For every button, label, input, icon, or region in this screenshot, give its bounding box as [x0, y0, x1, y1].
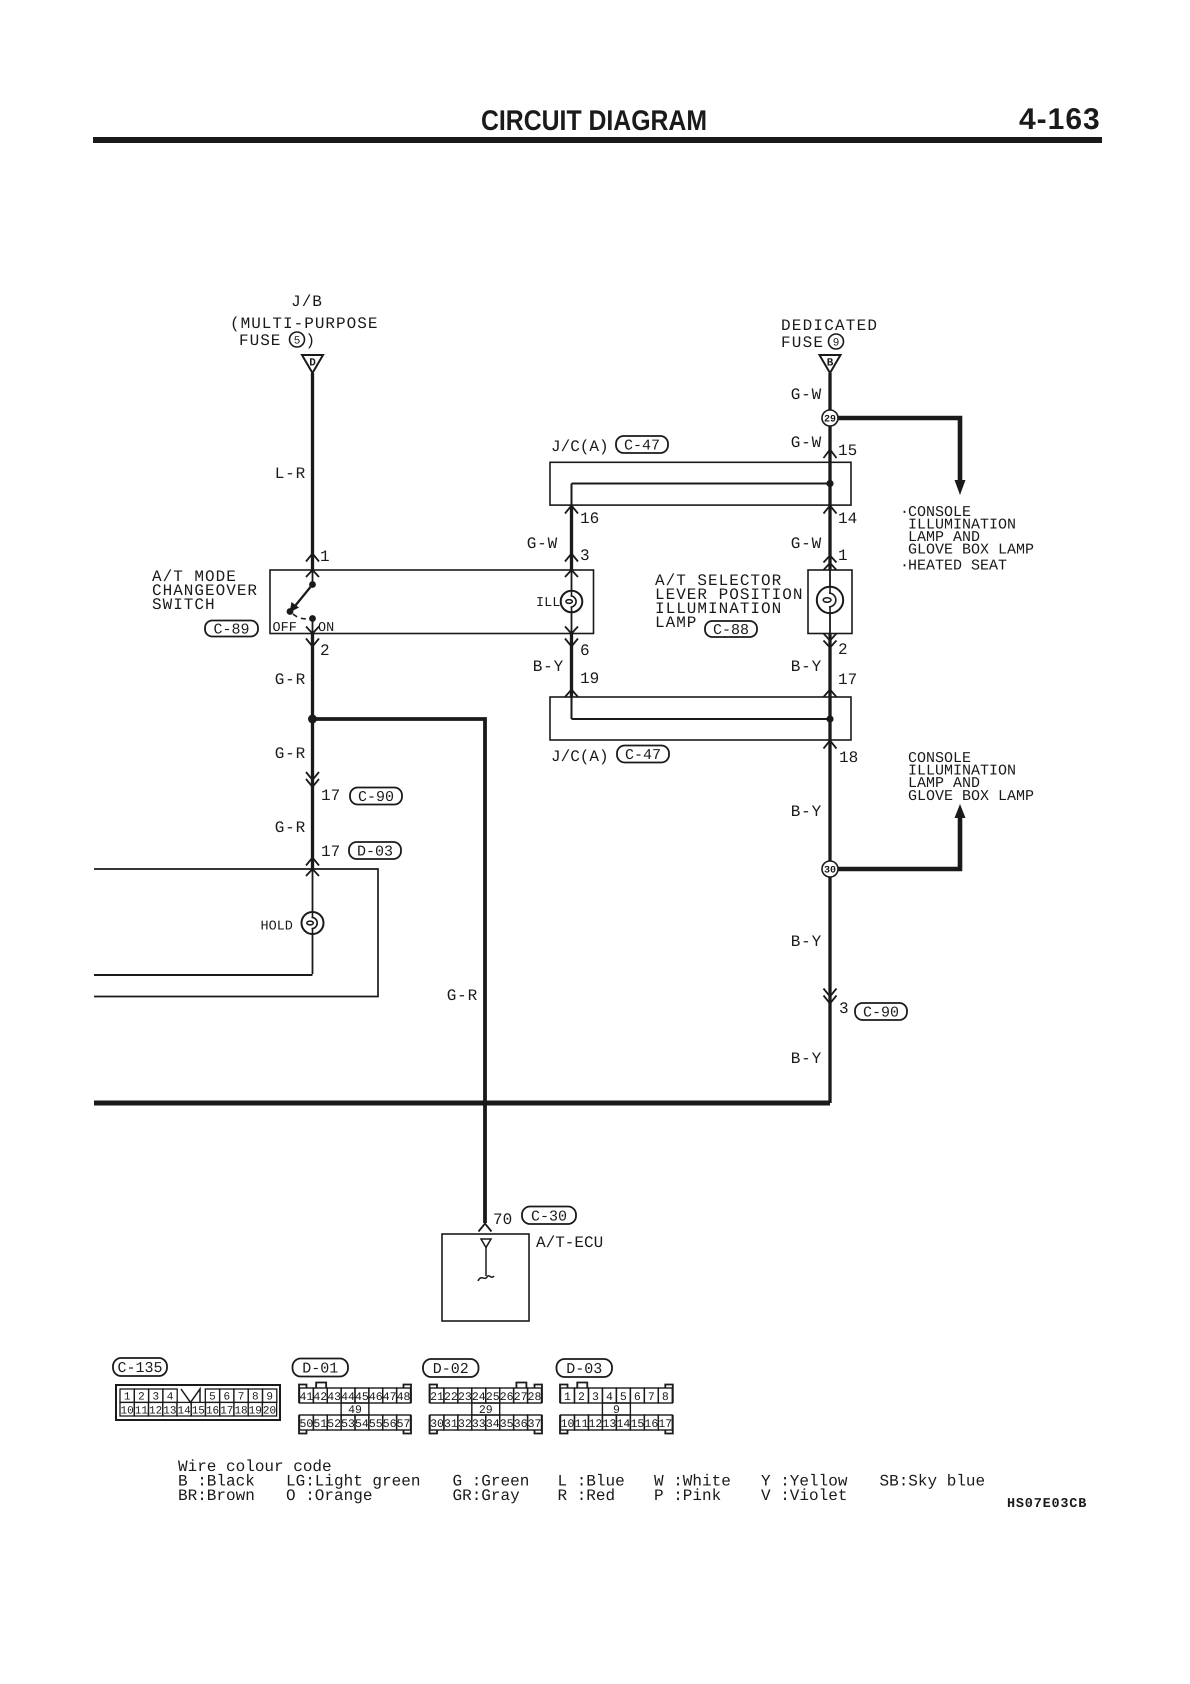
svg-text:52: 52: [327, 1418, 341, 1431]
svg-text:16: 16: [644, 1418, 658, 1431]
svg-text:G-W: G-W: [527, 535, 558, 553]
svg-text:D-03: D-03: [357, 844, 393, 861]
svg-text:B-Y: B-Y: [791, 933, 822, 951]
svg-text:42: 42: [313, 1391, 327, 1404]
svg-text:CIRCUIT DIAGRAM: CIRCUIT DIAGRAM: [481, 105, 707, 137]
wire G-W: J/C pin16 to switch pin 3: [570, 505, 573, 570]
svg-text:P :Pink: P :Pink: [654, 1487, 721, 1505]
svg-text:13: 13: [603, 1418, 617, 1431]
connector label D-02: [423, 1359, 479, 1378]
svg-text:C-90: C-90: [863, 1005, 899, 1022]
svg-text:FUSE: FUSE: [239, 332, 281, 350]
svg-text:48: 48: [397, 1391, 411, 1404]
svg-text:G-W: G-W: [791, 535, 822, 553]
junction block J/C(A) C-47 upper: title: [551, 436, 668, 456]
svg-text:1: 1: [838, 547, 848, 565]
HOLD lamp symbol: [302, 912, 324, 934]
svg-text:31: 31: [444, 1418, 458, 1431]
A/T-ECU box: [442, 1234, 529, 1321]
svg-text:19: 19: [580, 670, 599, 688]
C-88 pin 1 double chevron: [824, 556, 837, 571]
connector label C-89: [205, 621, 258, 639]
svg-text:FUSE: FUSE: [781, 334, 824, 352]
wire label L-R: [275, 465, 306, 483]
pin label 2 (C-88): [838, 641, 848, 659]
document code HS07E03CB: [1007, 1497, 1087, 1512]
svg-text:A/T-ECU: A/T-ECU: [536, 1234, 603, 1252]
terminal double chevron 17 (C-90): [306, 772, 319, 787]
internal bus upper J/C: [572, 480, 834, 505]
ILL lamp symbol: [561, 591, 583, 613]
svg-text:25: 25: [486, 1391, 500, 1404]
svg-text:O :Orange: O :Orange: [286, 1487, 372, 1505]
junction block J/C(A) C-47 lower: box: [550, 697, 851, 740]
svg-text:BR:Brown: BR:Brown: [178, 1487, 255, 1505]
svg-text:54: 54: [355, 1418, 369, 1431]
bottom bus thick wire: [94, 1101, 830, 1106]
svg-text:HOLD: HOLD: [261, 920, 293, 935]
svg-text:C-135: C-135: [117, 1360, 162, 1377]
thick feed wire from node 30 up to console lamp arrow: [836, 804, 966, 869]
svg-text:D-01: D-01: [302, 1361, 338, 1378]
svg-text:GLOVE BOX LAMP: GLOVE BOX LAMP: [908, 541, 1034, 558]
wire colour code legend: [178, 1458, 985, 1505]
svg-text:3: 3: [839, 1000, 849, 1018]
svg-text:16: 16: [206, 1405, 219, 1417]
svg-text:8: 8: [662, 1391, 669, 1404]
lamp label A/T SELECTOR LEVER POSITION ILLUMINATION LAMP: [655, 572, 803, 632]
svg-text:2: 2: [578, 1391, 585, 1404]
svg-text:17: 17: [220, 1405, 233, 1417]
pin label 15: [838, 442, 857, 460]
pin 6 terminal chevrons: [565, 627, 578, 647]
svg-text:B: B: [827, 358, 834, 370]
pin label 16: [580, 510, 599, 528]
connector D-01 pin diagram: [299, 1383, 411, 1434]
A/T-ECU internal input symbol: [478, 1239, 494, 1281]
page number 4-163: [1019, 103, 1101, 136]
HOLD lamp label: [261, 920, 293, 935]
svg-text:HEATED SEAT: HEATED SEAT: [908, 557, 1007, 574]
wire label G-W (node 29 to J/C pin 15): [791, 434, 822, 452]
svg-text:B-Y: B-Y: [791, 1050, 822, 1068]
pin label 1 (C-88): [838, 547, 848, 565]
C-88 pin 2 double chevron: [824, 634, 837, 648]
connector label C-30: [522, 1207, 576, 1226]
svg-text:35: 35: [500, 1418, 514, 1431]
svg-text:6: 6: [580, 642, 590, 660]
svg-text:14: 14: [616, 1418, 630, 1431]
connector D-02 pin diagram: [430, 1383, 543, 1434]
svg-text:43: 43: [327, 1391, 341, 1404]
svg-text:19: 19: [249, 1405, 262, 1417]
svg-text:SWITCH: SWITCH: [152, 596, 216, 614]
svg-text:21: 21: [430, 1391, 444, 1404]
wire label B-Y (right): [791, 658, 822, 676]
svg-text:15: 15: [192, 1405, 205, 1417]
pin label 70: [493, 1211, 512, 1229]
svg-text:12: 12: [149, 1405, 162, 1417]
pin 15 terminal chevron: [824, 450, 837, 459]
svg-text:18: 18: [234, 1405, 247, 1417]
connector label D-03 (inline): [349, 842, 401, 861]
svg-text:18: 18: [839, 749, 858, 767]
svg-text:): ): [306, 332, 316, 350]
pin label 19: [580, 670, 599, 688]
pin label 2: [320, 642, 330, 660]
svg-text:28: 28: [528, 1391, 542, 1404]
svg-text:D-02: D-02: [433, 1361, 469, 1378]
node 30: [822, 861, 838, 877]
svg-text:1: 1: [564, 1391, 571, 1404]
svg-text:J/C(A): J/C(A): [551, 748, 609, 766]
wire label G-R (upper): [275, 671, 306, 689]
pin 18 terminal mark: [824, 741, 837, 749]
connector C-135 pin diagram: [116, 1385, 280, 1420]
svg-text:V :Violet: V :Violet: [761, 1487, 847, 1505]
svg-text:LAMP: LAMP: [655, 614, 697, 632]
wire label G-W (right): [791, 535, 822, 553]
wire through lower J/C (pin 17 to 18): [828, 697, 831, 740]
svg-text:3: 3: [592, 1391, 599, 1404]
pin 17 terminal chevron: [824, 690, 837, 698]
svg-text:2: 2: [320, 642, 330, 660]
svg-text:G-R: G-R: [275, 745, 306, 763]
HOLD switch unit box (clipped at page edge): [94, 869, 378, 997]
wire label B-Y (mid): [791, 933, 822, 951]
svg-text:22: 22: [444, 1391, 458, 1404]
svg-text:13: 13: [163, 1405, 176, 1417]
svg-text:56: 56: [383, 1418, 397, 1431]
A/T-ECU label: [536, 1234, 603, 1252]
pin 70 terminal chevron: [479, 1224, 492, 1232]
svg-text:17: 17: [321, 843, 340, 861]
pin label 17 (D-03): [321, 843, 340, 861]
svg-text:16: 16: [580, 510, 599, 528]
svg-text:DEDICATED: DEDICATED: [781, 317, 878, 335]
fuse label J/B (MULTI-PURPOSE FUSE 5): [230, 293, 378, 350]
wire L-R: fuse D to switch pin 1: [311, 373, 314, 570]
svg-text:GLOVE BOX LAMP: GLOVE BOX LAMP: [908, 788, 1034, 805]
svg-text:33: 33: [472, 1418, 486, 1431]
wire label G-W (above node 29): [791, 386, 822, 404]
svg-text:6: 6: [634, 1391, 641, 1404]
svg-text:R :Red: R :Red: [558, 1487, 616, 1505]
svg-text:70: 70: [493, 1211, 512, 1229]
pin label 18: [839, 749, 858, 767]
pin label 17 (C-90): [321, 787, 340, 805]
svg-text:30: 30: [430, 1418, 444, 1431]
svg-text:14: 14: [177, 1405, 191, 1417]
svg-text:G-W: G-W: [791, 386, 822, 404]
svg-text:36: 36: [514, 1418, 528, 1431]
svg-text:3: 3: [580, 547, 590, 565]
switch symbol OFF/ON: [287, 581, 316, 622]
wire label B-Y (left): [533, 658, 564, 676]
svg-text:C-30: C-30: [531, 1208, 567, 1225]
svg-text:1: 1: [320, 548, 330, 566]
switch label A/T MODE CHANGEOVER SWITCH: [152, 568, 258, 614]
svg-text:G-W: G-W: [791, 434, 822, 452]
svg-text:D: D: [309, 358, 316, 370]
svg-text:9: 9: [833, 338, 840, 350]
svg-text:(MULTI-PURPOSE: (MULTI-PURPOSE: [230, 315, 378, 333]
svg-text:J/C(A): J/C(A): [551, 438, 609, 456]
svg-text:G-R: G-R: [275, 671, 306, 689]
C-88 lamp symbol: [817, 587, 843, 613]
svg-text:G-R: G-R: [447, 987, 478, 1005]
svg-text:17: 17: [658, 1418, 672, 1431]
svg-text:46: 46: [369, 1391, 383, 1404]
connector label D-01: [293, 1359, 349, 1378]
svg-text:50: 50: [300, 1418, 314, 1431]
svg-text:30: 30: [824, 866, 836, 877]
HOLD lamp wire: [94, 869, 313, 975]
junction node (G-R split): [308, 715, 317, 724]
pin label 3: [580, 547, 590, 565]
switch box C-89: [270, 570, 594, 634]
svg-text:55: 55: [369, 1418, 383, 1431]
wire B-Y: C-88 pin 2 to J/C pin 17: [828, 634, 831, 698]
svg-text:10: 10: [121, 1405, 134, 1417]
svg-text:L-R: L-R: [275, 465, 306, 483]
svg-text:ON: ON: [318, 621, 334, 636]
svg-text:OFF: OFF: [273, 621, 297, 636]
svg-text:C-47: C-47: [625, 747, 661, 764]
pin label 6: [580, 642, 590, 660]
svg-text:17: 17: [838, 671, 857, 689]
thick feed wire from node 29 to console illumination arrow: [836, 418, 966, 495]
note: console illumination lamp and glove box lamp (lower): [908, 750, 1034, 805]
wire label G-W (left): [527, 535, 558, 553]
svg-text:C-89: C-89: [213, 622, 249, 639]
svg-text:4: 4: [606, 1391, 613, 1404]
svg-text:C-88: C-88: [713, 622, 749, 639]
pin 3 terminal chevrons: [565, 554, 578, 578]
A/T selector illumination lamp box: [808, 570, 852, 634]
svg-text:23: 23: [458, 1391, 472, 1404]
connector label C-135: [113, 1358, 167, 1377]
wire G-W: fuse B to node 29: [828, 373, 831, 462]
svg-text:29: 29: [824, 415, 836, 426]
terminal double chevron 3 (C-90): [824, 989, 837, 1004]
svg-text:15: 15: [630, 1418, 644, 1431]
svg-text:B-Y: B-Y: [791, 803, 822, 821]
fuse label DEDICATED FUSE 9: [781, 317, 878, 352]
pin 1 terminal chevrons: [306, 554, 319, 578]
pin 2 terminal chevrons: [306, 627, 319, 647]
svg-text:41: 41: [300, 1391, 314, 1404]
wire G-R branch to A/T-ECU: [313, 719, 486, 1223]
pin label 17: [838, 671, 857, 689]
ILL lamp wire through box: [571, 570, 573, 634]
svg-text:7: 7: [648, 1391, 655, 1404]
pin 17 terminal chevrons at HOLD box: [306, 858, 319, 877]
svg-text:34: 34: [486, 1418, 500, 1431]
svg-text:B-Y: B-Y: [791, 658, 822, 676]
svg-text:32: 32: [458, 1418, 472, 1431]
ILL lamp label: [536, 596, 560, 611]
pin label 14: [838, 510, 857, 528]
pin 16 terminal mark: [565, 506, 578, 514]
junction block J/C(A) C-47 lower: title: [551, 746, 669, 767]
svg-text:17: 17: [321, 787, 340, 805]
connector triangle B (dedicated fuse): [820, 355, 841, 373]
svg-text:ILL: ILL: [536, 596, 560, 611]
wire B-Y: switch pin 6 to J/C pin 19: [570, 634, 573, 698]
svg-text:11: 11: [575, 1418, 589, 1431]
node 29: [822, 410, 838, 426]
svg-text:20: 20: [263, 1405, 276, 1417]
svg-text:J/B: J/B: [291, 293, 323, 311]
wire through upper J/C pin15-pin14: [828, 462, 831, 570]
svg-text:47: 47: [383, 1391, 397, 1404]
lamp wire through C-88 box: [829, 570, 831, 634]
svg-text:12: 12: [589, 1418, 603, 1431]
wire G-R: switch pin 2 down: [311, 634, 314, 870]
svg-text:10: 10: [561, 1418, 575, 1431]
connector triangle D (from J/B): [302, 355, 323, 373]
header rule: [93, 137, 1102, 143]
svg-text:4-163: 4-163: [1019, 103, 1101, 136]
pin label 3: [839, 1000, 849, 1018]
page title CIRCUIT DIAGRAM: [481, 105, 707, 137]
connector D-03 pin diagram: [560, 1383, 673, 1434]
svg-text:44: 44: [341, 1391, 355, 1404]
svg-text:D-03: D-03: [566, 1361, 602, 1378]
svg-text:57: 57: [397, 1418, 411, 1431]
pin 19 terminal chevron: [565, 690, 578, 698]
switch position label OFF: [273, 621, 297, 636]
switch wire pin1 to contact: [312, 570, 314, 634]
connector label D-03: [557, 1359, 613, 1378]
svg-text:27: 27: [514, 1391, 528, 1404]
svg-text:14: 14: [838, 510, 857, 528]
connector label C-88: [705, 621, 757, 639]
svg-text:11: 11: [135, 1405, 149, 1417]
pin label 1: [320, 548, 330, 566]
svg-text:HS07E03CB: HS07E03CB: [1007, 1497, 1087, 1512]
svg-text:GR:Gray: GR:Gray: [453, 1487, 521, 1505]
pin 14 terminal mark: [824, 506, 837, 514]
svg-text:26: 26: [500, 1391, 514, 1404]
wire label G-R (mid): [275, 745, 306, 763]
svg-text:37: 37: [528, 1418, 542, 1431]
wire label B-Y (below 18): [791, 803, 822, 821]
internal bus lower J/C: [572, 697, 834, 723]
svg-text:SB:Sky blue: SB:Sky blue: [880, 1473, 986, 1491]
svg-text:15: 15: [838, 442, 857, 460]
svg-text:53: 53: [341, 1418, 355, 1431]
svg-text:B-Y: B-Y: [533, 658, 564, 676]
svg-text:C-90: C-90: [358, 789, 394, 806]
svg-text:45: 45: [355, 1391, 369, 1404]
svg-text:G-R: G-R: [275, 819, 306, 837]
wire label G-R (lower): [275, 819, 306, 837]
svg-text:2: 2: [838, 641, 848, 659]
connector label C-90 (right): [855, 1003, 907, 1022]
junction block J/C(A) C-47 upper: box: [550, 462, 851, 505]
svg-text:24: 24: [472, 1391, 486, 1404]
svg-text:51: 51: [313, 1418, 327, 1431]
wire B-Y: J/C pin 18 to bottom bus: [828, 740, 831, 1103]
svg-text:C-47: C-47: [624, 438, 660, 455]
switch position label ON: [318, 621, 334, 636]
svg-text:5: 5: [620, 1391, 627, 1404]
connector label C-90 (left): [350, 788, 402, 807]
wire label B-Y (lower): [791, 1050, 822, 1068]
note: console illumination lamp / glove box lamp / heated seat: [900, 504, 1034, 574]
svg-text:5: 5: [294, 336, 301, 348]
wire label G-R (to ECU): [447, 987, 478, 1005]
